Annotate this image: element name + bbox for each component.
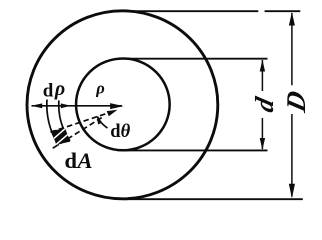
dimension line d with arrows [261,60,263,149]
dashed radial line lower [51,118,102,150]
radius line rho (horizontal) [32,105,123,107]
arrowhead at centre (rho vector) [110,103,124,109]
label D (rotated) [281,88,311,116]
outer circle (diameter D) [27,11,218,199]
arrowhead left (at outer circle) [31,103,42,108]
svg-text:dθ: dθ [110,122,130,142]
svg-text:dρ: dρ [43,78,65,101]
svg-text:ρ: ρ [95,78,105,97]
arrowhead right (toward inner circle) [61,103,71,108]
svg-text:dA: dA [65,148,93,173]
svg-text:d: d [249,94,279,115]
extension line bottom of outer circle [124,198,303,200]
label dA [65,148,93,173]
label rho [95,78,105,97]
area element dA (solid with hatch slits) [52,129,71,145]
label d (rotated) [249,94,279,115]
svg-text:D: D [281,88,311,116]
arrowhead of dashed radial [107,110,118,117]
dimension line D with arrows [291,13,293,197]
dashed radial line upper [49,111,114,133]
extension line top of inner circle [126,58,268,60]
label d-theta [110,122,130,142]
d-theta angle arc [97,116,107,128]
hatch slits in dA [52,129,69,146]
tick arc B [59,100,70,140]
inner circle (diameter d) [76,59,170,151]
label d-rho [43,78,65,101]
extension line bottom of inner circle [126,149,268,151]
extension line top of outer circle [124,10,300,12]
arrowhead of d-theta arc [97,116,102,124]
tick arc A [47,100,59,146]
